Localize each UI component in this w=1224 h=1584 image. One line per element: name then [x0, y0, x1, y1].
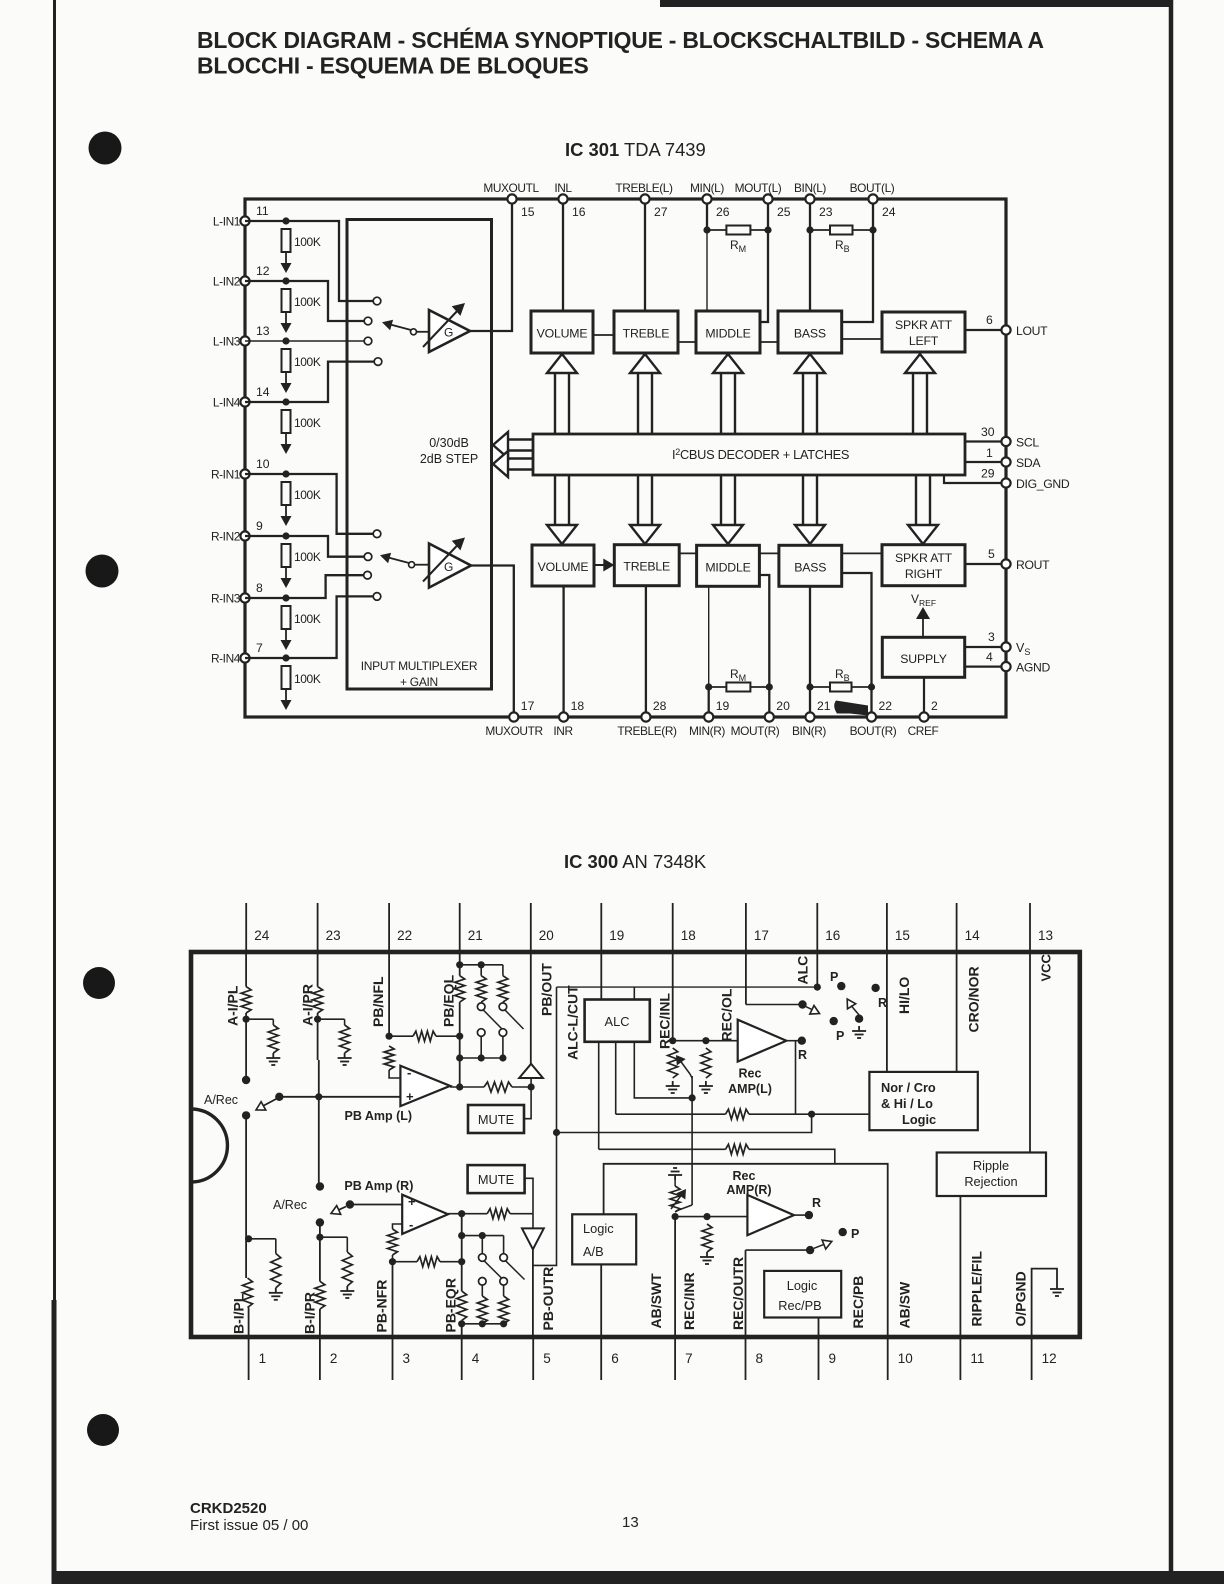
block TREBLE (L)	[614, 311, 678, 353]
wire Logic A/B to pin6	[600, 1264, 602, 1337]
label HI/LO (IC300 top pin)	[896, 977, 912, 1014]
multiplexer contact node R-IN3	[364, 571, 372, 579]
wire pin15 HI/LO to logic box	[886, 952, 888, 1072]
svg-text:LEFT: LEFT	[909, 334, 939, 348]
svg-text:CREF: CREF	[908, 724, 939, 738]
punch hole 1	[89, 132, 122, 165]
pin 29 DIG_GND	[944, 467, 1070, 492]
AC-ground arrow (R-IN1)	[281, 505, 292, 526]
pin 6 LOUT	[965, 313, 1048, 338]
svg-text:17: 17	[521, 699, 535, 713]
contact R (L)	[871, 984, 887, 1010]
A/Rec label (R)	[273, 1198, 307, 1212]
pin 28 TREBLE(R) (IC301 bottom)	[617, 699, 677, 738]
pin 13 stub (IC300 top)	[1030, 903, 1053, 952]
block SPKR ATT LEFT	[882, 312, 965, 352]
block ALC	[585, 1000, 650, 1042]
svg-text:20: 20	[776, 699, 790, 713]
svg-text:13: 13	[622, 1514, 639, 1531]
svg-text:15: 15	[895, 928, 910, 943]
label PB-NFR (IC300 bottom pin)	[373, 1280, 389, 1333]
svg-text:B-I/PR: B-I/PR	[302, 1292, 318, 1334]
multiplexer contact node L-IN4	[374, 358, 382, 366]
pin 11 L-IN1 (IC301 left)	[213, 204, 269, 229]
wire pin17 REC/OL	[746, 952, 803, 1005]
svg-text:100K: 100K	[294, 416, 321, 430]
svg-text:RIGHT: RIGHT	[905, 567, 943, 581]
svg-text:22: 22	[879, 699, 893, 713]
svg-text:P: P	[836, 1029, 844, 1043]
svg-text:21: 21	[817, 699, 831, 713]
pin 15 MUXOUTL (IC301 top)	[483, 181, 539, 219]
svg-text:7: 7	[685, 1351, 693, 1366]
pin 4 AGND	[965, 650, 1051, 675]
pin 10 stub (IC300 bottom)	[888, 1337, 913, 1380]
svg-text:Logic: Logic	[787, 1278, 818, 1293]
bus arrow up to MIDDLE	[713, 354, 743, 434]
pin 24 BOUT(L) (IC301 top)	[850, 181, 896, 219]
wire VOLUME-TREBLE arrow (R)	[594, 559, 614, 572]
svg-text:MIN(L): MIN(L)	[690, 181, 724, 195]
svg-text:SPKR ATT: SPKR ATT	[895, 318, 953, 332]
wire pin24 A-I/PL into chip	[245, 952, 247, 987]
switch EQL column3	[499, 1003, 523, 1058]
wire TREBLE-MIDDLE (R)	[679, 552, 696, 554]
label RIPPLE/FIL (IC300 bottom pin)	[969, 1251, 985, 1327]
footer CRKD2520	[190, 1500, 267, 1517]
wire pin22 PB/NFL into chip	[386, 952, 393, 1040]
resistor rail L4	[726, 1144, 835, 1164]
svg-text:AB/SWT: AB/SWT	[648, 1273, 664, 1329]
label REC/INL (IC300 top pin)	[657, 993, 673, 1049]
svg-text:PB-OUTR: PB-OUTR	[540, 1267, 556, 1331]
AC-ground arrow (L-IN1)	[281, 252, 292, 273]
wire EQL column1 down	[456, 1002, 463, 1087]
svg-text:BIN(R): BIN(R)	[792, 724, 826, 738]
wire BOUT(R) pin22 branch	[842, 573, 875, 713]
block MIDDLE (R)	[697, 545, 760, 586]
wire ALC input drop	[633, 987, 635, 999]
svg-text:Ripple: Ripple	[973, 1158, 1009, 1173]
svg-text:5: 5	[543, 1351, 551, 1366]
IC300 connector notch arc	[191, 1109, 227, 1182]
label PB/EQL (IC300 top pin)	[441, 974, 457, 1027]
label B-I/PR (IC300 bottom pin)	[302, 1292, 318, 1334]
resistor PB-NFR feedback	[388, 1224, 403, 1262]
wire pin21 PB/EQL top rail	[456, 952, 503, 976]
switch contact A (L)	[242, 1076, 250, 1084]
multiplexer contact node L-IN3	[364, 337, 372, 345]
svg-text:REC/PB: REC/PB	[850, 1276, 866, 1329]
svg-text:3: 3	[988, 630, 995, 644]
bus arrow left to multiplexer (lower)	[493, 451, 533, 477]
switch EQL column2	[477, 1003, 502, 1058]
mux wiper L	[382, 320, 429, 335]
svg-text:ROUT: ROUT	[1016, 558, 1050, 572]
svg-text:A/Rec: A/Rec	[204, 1093, 238, 1107]
page right scan border line	[1169, 0, 1174, 1584]
bus arrow down to BASS (R)	[795, 475, 825, 544]
ground A-I/PR shunt	[338, 1053, 352, 1065]
wire EQR top rail	[462, 1232, 504, 1239]
ground REC/INL pot	[666, 1081, 680, 1093]
svg-text:1: 1	[259, 1351, 267, 1366]
wire B-I/PL to pin1	[248, 1308, 250, 1338]
svg-text:First issue 05 / 00: First issue 05 / 00	[190, 1517, 308, 1534]
resistor EQL column3	[498, 965, 508, 1002]
IC301 inner input-multiplexer box	[347, 220, 492, 690]
pin 25 MOUT(L) (IC301 top)	[735, 181, 791, 219]
wire P/R pivot to REC/OUTR	[746, 1250, 811, 1337]
svg-text:SUPPLY: SUPPLY	[900, 652, 946, 666]
VREF arrow from SUPPLY	[911, 592, 936, 637]
wire INL pin16 to VOLUME(L)	[562, 204, 564, 311]
label ALC-L/CUT (IC300 top pin)	[564, 985, 580, 1060]
page top scan border bar	[660, 0, 1172, 7]
wire SUPPLY to CREF pin2	[923, 677, 925, 712]
page left scan border line	[53, 0, 57, 1584]
svg-text:14: 14	[256, 385, 270, 399]
ground A-I/PL shunt	[266, 1053, 280, 1065]
punch hole 2	[86, 555, 119, 588]
svg-text:28: 28	[653, 699, 667, 713]
svg-text:4: 4	[986, 650, 993, 664]
resistor EQL column2	[476, 965, 486, 1002]
junction L-IN2	[282, 277, 289, 284]
wire A/Rec wiper to PB Amp R +input	[350, 1204, 402, 1206]
wire pin12 O/PGND	[1032, 1269, 1057, 1337]
svg-text:PB/OUT: PB/OUT	[539, 963, 555, 1016]
svg-text:DIG_GND: DIG_GND	[1016, 477, 1070, 491]
svg-text:G: G	[444, 560, 453, 574]
page header title	[197, 27, 1044, 79]
wire rail L2	[616, 1113, 726, 1115]
resistor A-I/PL shunt	[246, 1019, 278, 1053]
svg-text:& Hi / Lo: & Hi / Lo	[881, 1096, 933, 1111]
block I2CBUS DECODER + LATCHES	[533, 434, 965, 475]
svg-text:HI/LO: HI/LO	[896, 977, 912, 1014]
bus arrow down to VOLUME (R)	[547, 475, 577, 544]
svg-text:ALC-L/CUT: ALC-L/CUT	[564, 985, 580, 1060]
svg-text:Logic: Logic	[902, 1112, 936, 1127]
switch contact (REC/OL)	[798, 1000, 806, 1008]
bus arrow up to VOLUME	[547, 354, 577, 434]
svg-text:R: R	[878, 996, 887, 1010]
pin 17 MUXOUTR (IC301 bottom)	[485, 699, 543, 738]
pin 13 L-IN3 (IC301 left)	[213, 324, 270, 349]
wire MIN(R) pin19 branch	[705, 587, 712, 713]
resistor REC/INR shunt	[702, 1224, 712, 1252]
wire pin1 B-I/PL chain	[245, 1115, 252, 1278]
svg-text:+: +	[406, 1089, 414, 1104]
svg-text:9: 9	[256, 519, 263, 533]
amp PB-OUTR buffer (down)	[522, 1214, 544, 1337]
wire pin2 B-I/PR chain	[316, 1223, 323, 1282]
resistor EQR column2	[477, 1285, 487, 1324]
svg-text:12: 12	[1042, 1351, 1057, 1366]
svg-text:5: 5	[988, 547, 995, 561]
pin 10 R-IN1 (IC301 left)	[211, 457, 270, 482]
wire pin16 ALC into chip	[814, 952, 821, 991]
svg-text:ALC: ALC	[795, 956, 811, 985]
svg-text:MIN(R): MIN(R)	[689, 724, 725, 738]
wire MIDDLE-BASS (L)	[760, 341, 778, 343]
AC-ground arrow (L-IN3)	[281, 372, 292, 393]
svg-text:R: R	[812, 1196, 821, 1210]
wire amp R output to MUXOUTR pin17	[471, 566, 514, 713]
resistor 100K (L-IN1)	[282, 229, 321, 252]
svg-text:A/Rec: A/Rec	[273, 1198, 307, 1212]
svg-text:G: G	[444, 326, 453, 340]
svg-text:RIPPLE/FIL: RIPPLE/FIL	[969, 1251, 985, 1327]
svg-text:24: 24	[254, 928, 270, 943]
svg-text:20: 20	[539, 928, 554, 943]
pin 18 INR (IC301 bottom)	[553, 699, 584, 738]
wire VOLUME-TREBLE (L)	[593, 334, 614, 336]
pin 9 R-IN2 (IC301 left)	[211, 519, 263, 544]
svg-text:2: 2	[931, 699, 938, 713]
pin 14 stub (IC300 top)	[957, 903, 981, 952]
junction R-IN3	[282, 594, 289, 601]
svg-text:Logic: Logic	[583, 1221, 614, 1236]
AC-ground arrow (L-IN4)	[281, 433, 292, 454]
resistor amp R out	[487, 1209, 533, 1219]
svg-text:R-IN4: R-IN4	[211, 652, 241, 666]
pin 8 R-IN3 (IC301 left)	[211, 581, 263, 606]
svg-text:SPKR ATT: SPKR ATT	[895, 551, 953, 565]
bus arrow left to multiplexer (upper)	[493, 432, 533, 458]
resistor EQL column1	[455, 976, 465, 1002]
svg-text:Rec: Rec	[739, 1066, 762, 1080]
wire MUTE R to output line	[525, 1178, 533, 1213]
svg-text:LOUT: LOUT	[1016, 324, 1048, 338]
wire B-I/PR to pin2	[319, 1309, 321, 1337]
node R output (L)	[786, 1037, 807, 1063]
switch EQR column3	[500, 1236, 525, 1286]
ground O/PGND	[1050, 1284, 1064, 1296]
svg-text:P: P	[851, 1227, 859, 1241]
svg-text:11: 11	[970, 1351, 984, 1366]
potentiometer REC/INL	[668, 1048, 690, 1078]
wire pin7 REC/INR	[672, 1213, 679, 1337]
switch contact B (L)	[242, 1111, 250, 1119]
svg-text:11: 11	[256, 204, 269, 218]
label INPUT MULTIPLEXER + GAIN	[361, 659, 478, 689]
svg-text:29: 29	[981, 467, 995, 481]
label A-I/PL (IC300 top pin)	[224, 985, 240, 1026]
svg-text:REC/INR: REC/INR	[681, 1272, 697, 1330]
pin 27 TREBLE(L) (IC301 top)	[615, 181, 673, 219]
svg-text:INPUT MULTIPLEXER: INPUT MULTIPLEXER	[361, 659, 478, 673]
svg-text:13: 13	[256, 324, 270, 338]
wiper REC/INL link	[690, 1074, 692, 1078]
wire R-IN2 to multiplexer contact	[245, 536, 368, 557]
wire + junction A-I/PR	[314, 1013, 321, 1060]
junction L-IN1	[282, 217, 289, 224]
ground B-I/PL shunt	[269, 1288, 283, 1300]
svg-text:TREBLE(R): TREBLE(R)	[617, 724, 677, 738]
block VOLUME (R)	[532, 545, 594, 586]
svg-text:15: 15	[521, 205, 535, 219]
wire rail L4	[599, 1148, 726, 1150]
pin 22 stub (IC300 top)	[389, 903, 412, 952]
op-amp Rec AMP(L)	[738, 1020, 787, 1062]
scan smudge near pin 21	[834, 701, 868, 716]
svg-text:PB/NFL: PB/NFL	[370, 976, 386, 1027]
wire pin4 PB-EQR column	[458, 1214, 465, 1328]
svg-text:6: 6	[611, 1351, 619, 1366]
svg-text:2: 2	[330, 1351, 338, 1366]
label REC/OUTR (IC300 bottom pin)	[730, 1257, 746, 1330]
svg-text:18: 18	[571, 699, 585, 713]
block SUPPLY	[882, 637, 964, 677]
ground REC/INR pot top	[668, 1168, 682, 1180]
amp G right (variable gain)	[423, 538, 471, 588]
pin 7 R-IN4 (IC301 left)	[211, 641, 263, 666]
bus arrow down to MIDDLE (R)	[713, 475, 743, 544]
wire MOUT(R) pin20 branch	[759, 575, 773, 713]
svg-text:INL: INL	[554, 181, 572, 195]
svg-text:MUXOUTL: MUXOUTL	[483, 181, 539, 195]
block TREBLE (R)	[614, 545, 679, 586]
bus arrow up to TREBLE	[630, 354, 660, 434]
resistor PB/NFL feedback	[384, 1046, 400, 1078]
svg-text:INR: INR	[553, 724, 573, 738]
label PB Amp (R)	[344, 1179, 413, 1193]
bus arrow down to SPKR ATT RIGHT (R)	[908, 475, 938, 544]
pin 12 stub (IC300 bottom)	[1032, 1337, 1057, 1380]
label 0/30dB 2dB STEP	[420, 436, 478, 466]
multiplexer contact node R-IN4	[373, 593, 381, 601]
pin 30 SCL	[965, 425, 1039, 450]
block Ripple Rejection	[937, 1153, 1046, 1197]
label AB/SW (IC300 bottom pin)	[897, 1281, 913, 1328]
amp PB/OUT buffer (up)	[519, 952, 543, 1087]
resistor EQR column1	[457, 1291, 467, 1337]
svg-text:16: 16	[572, 205, 586, 219]
resistor 100K (R-IN4)	[282, 666, 321, 689]
resistor 100K (L-IN3)	[282, 349, 321, 372]
block BASS (R)	[779, 545, 842, 586]
svg-text:MOUT(L): MOUT(L)	[735, 181, 782, 195]
AC-ground arrow (R-IN4)	[281, 689, 292, 710]
wire EQL bottom rail	[460, 1054, 507, 1061]
label REC/OL (IC300 top pin)	[719, 988, 735, 1041]
bus arrow down to TREBLE (R)	[630, 475, 660, 544]
multiplexer contact node R-IN2	[364, 553, 372, 561]
amp G left (variable gain)	[423, 303, 470, 352]
wiper REC/INR link	[676, 1205, 692, 1211]
resistor PB/NFL to PB/EQL	[389, 1031, 463, 1041]
multiplexer contact node R-IN1	[373, 530, 381, 538]
resistor 100K (L-IN2)	[282, 289, 321, 312]
label PB Amp (L)	[345, 1109, 413, 1123]
svg-text:4: 4	[472, 1351, 480, 1366]
pin 20 stub (IC300 top)	[531, 903, 554, 952]
resistor B-I/PR series	[315, 1281, 325, 1309]
svg-text:P: P	[830, 970, 838, 984]
junction R-IN1	[282, 470, 289, 477]
wire MOUT(L) pin25 branch	[760, 204, 772, 322]
svg-text:BLOCK DIAGRAM - SCHÉMA SYNOPTI: BLOCK DIAGRAM - SCHÉMA SYNOPTIQUE - BLOC…	[197, 27, 1044, 53]
label VCC (IC300 top pin)	[1039, 953, 1054, 981]
svg-text:10: 10	[898, 1351, 913, 1366]
node R output (R)	[794, 1196, 821, 1219]
junction L-IN4	[282, 398, 289, 405]
ground REC/INR shunt	[700, 1252, 714, 1264]
switch arm P (L)	[806, 1006, 844, 1044]
label Rec AMP(L)	[728, 1066, 772, 1096]
switch P/R (R)	[806, 1227, 859, 1254]
wire pin18 REC/INL	[669, 952, 676, 1044]
svg-text:MIDDLE: MIDDLE	[705, 327, 750, 341]
svg-text:BIN(L): BIN(L)	[794, 181, 826, 195]
label B-I/PL (IC300 bottom pin)	[230, 1293, 246, 1334]
pin 14 L-IN4 (IC301 left)	[213, 385, 270, 410]
pin 1 stub (IC300 bottom)	[249, 1337, 267, 1380]
wire BIN(R) pin21 branch	[806, 587, 813, 713]
wire pin23 A-I/PR into chip	[317, 952, 319, 987]
svg-text:TREBLE: TREBLE	[623, 560, 670, 574]
junction R-IN4	[282, 654, 289, 661]
resistor A-I/PL series	[241, 987, 251, 1013]
label A-I/PR (IC300 top pin)	[299, 984, 315, 1026]
mux wiper R	[380, 553, 429, 568]
svg-text:MUXOUTR: MUXOUTR	[485, 724, 543, 738]
wire Ripple box to pin11	[959, 1196, 961, 1337]
svg-text:3: 3	[403, 1351, 411, 1366]
AC-ground arrow (R-IN2)	[281, 567, 292, 588]
label REC/PB (IC300 bottom pin)	[850, 1276, 866, 1329]
svg-text:2dB STEP: 2dB STEP	[420, 452, 478, 466]
switch contact A (R)	[316, 1182, 324, 1190]
AC-ground arrow (L-IN2)	[281, 312, 292, 333]
wire ALC-PBOUTR drop	[533, 987, 560, 1265]
IC300 outline box	[191, 952, 1080, 1337]
resistor RB (L)	[810, 226, 873, 255]
pin 17 stub (IC300 top)	[746, 903, 769, 952]
svg-text:VCC: VCC	[1039, 953, 1054, 981]
svg-text:Rec: Rec	[733, 1169, 756, 1183]
svg-text:L-IN3: L-IN3	[213, 335, 241, 349]
label PB-EQR (IC300 bottom pin)	[443, 1278, 459, 1332]
IC301 outline box	[245, 199, 1006, 717]
label CRO/NOR (IC300 top pin)	[966, 966, 982, 1032]
wire Logic Rec/PB to pin9	[818, 1318, 820, 1338]
svg-text:TREBLE: TREBLE	[623, 327, 670, 341]
pin 3 VS	[965, 630, 1031, 657]
pin 23 BIN(L) (IC301 top)	[794, 181, 833, 219]
pin 15 stub (IC300 top)	[887, 903, 910, 952]
pin 5 stub (IC300 bottom)	[533, 1337, 551, 1380]
svg-text:R-IN1: R-IN1	[211, 468, 241, 482]
resistor amp L out	[484, 1082, 535, 1092]
bus arrow up to BASS	[795, 354, 825, 434]
wire MIDDLE-BASS (R)	[759, 552, 779, 554]
block Nor/Cro Hi/Lo Logic	[869, 1072, 977, 1130]
svg-text:100K: 100K	[294, 612, 321, 626]
pin 12 L-IN2 (IC301 left)	[213, 264, 270, 289]
op-amp PB Amp (L)	[400, 1065, 450, 1106]
resistor A-I/PR series	[313, 987, 323, 1013]
wire R-IN3 to multiplexer contact	[245, 575, 368, 598]
pin 4 stub (IC300 bottom)	[462, 1337, 480, 1380]
wire REC input node (R)	[675, 1213, 747, 1220]
svg-text:AGND: AGND	[1016, 661, 1051, 675]
svg-text:6: 6	[986, 313, 993, 327]
wire REC input node	[673, 1037, 738, 1044]
svg-text:VOLUME: VOLUME	[538, 560, 589, 574]
